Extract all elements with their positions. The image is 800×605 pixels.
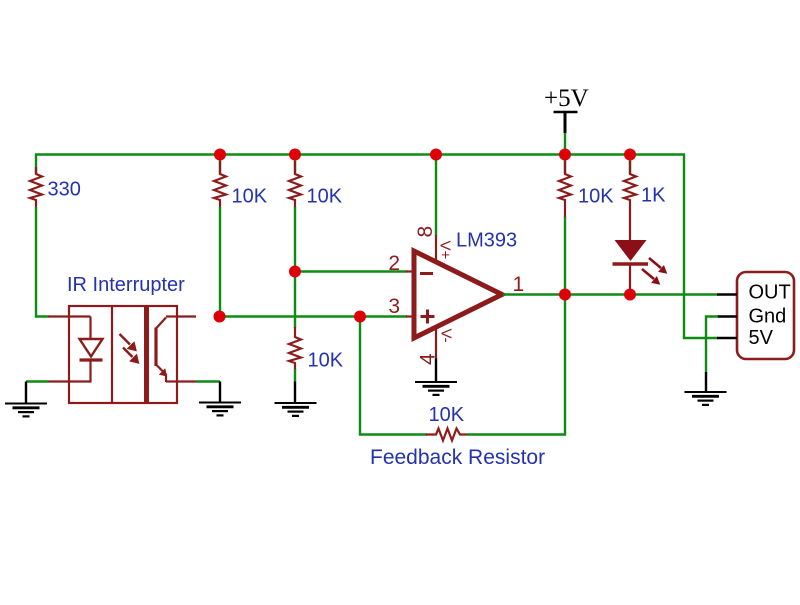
op-amp plus input mark xyxy=(421,310,435,324)
junction: pin3/R2 xyxy=(214,311,226,323)
wire: feedback resistor up to output net xyxy=(467,295,565,435)
resistor R2 10K xyxy=(214,161,226,208)
wire: pin 4 to ground G4 xyxy=(435,327,437,382)
ground G1 xyxy=(5,404,47,417)
wire: R4 to ground xyxy=(294,369,296,382)
wire: pin3 net from IR junction to op-amp xyxy=(219,315,407,317)
junction: rail/pin8 xyxy=(430,149,442,161)
svg-text:Gnd: Gnd xyxy=(749,306,787,328)
resistor R1 330 xyxy=(30,167,42,208)
svg-text:10K: 10K xyxy=(308,350,344,372)
junction: output/LED xyxy=(624,289,636,301)
junction: pin2 net xyxy=(289,266,301,278)
svg-text:5V: 5V xyxy=(749,327,774,349)
resistor R4 10K xyxy=(289,327,301,370)
resistor R3 10K xyxy=(289,161,301,208)
svg-text:V+: V+ xyxy=(437,241,454,260)
svg-text:OUT: OUT xyxy=(749,282,791,304)
svg-text:LM393: LM393 xyxy=(456,230,517,252)
svg-text:2: 2 xyxy=(388,252,400,275)
wire: feedback loop from pin3 junction down xyxy=(360,317,427,435)
wire: rail to R3 xyxy=(294,155,296,175)
junction: output/R5/feedback xyxy=(559,289,571,301)
resistor R7 10K feedback xyxy=(426,429,468,441)
IR interrupter module box xyxy=(69,306,177,403)
resistor R5 10K pull-up xyxy=(559,161,571,218)
wire: rail to pin 8 xyxy=(435,155,437,264)
wire: +5V symbol to rail xyxy=(564,133,566,155)
pin stub 5V xyxy=(717,337,737,340)
junction: rail/R5/+5V xyxy=(559,149,571,161)
wire: rail to R6 xyxy=(629,155,631,175)
wire: R2 down to pin3 net xyxy=(219,207,221,317)
ground under R4 xyxy=(275,403,317,416)
wire: IR cathode to ground G1 xyxy=(26,382,49,404)
ground G4 xyxy=(415,382,457,395)
junction: rail/R2 xyxy=(214,149,226,161)
junction: pin3/feedback xyxy=(354,311,366,323)
wire: IR emitter to ground G2 xyxy=(177,382,220,403)
svg-text:1K: 1K xyxy=(641,185,666,207)
phototransistor Q1 inside module xyxy=(156,317,178,383)
svg-text:IR Interrupter: IR Interrupter xyxy=(67,274,185,296)
pin stub Gnd xyxy=(717,315,737,318)
svg-text:1: 1 xyxy=(513,273,525,296)
ground G2 xyxy=(199,403,241,416)
svg-text:10K: 10K xyxy=(307,186,343,208)
wire: rail to R5 xyxy=(564,155,566,175)
wire: Gnd pin to ground G5 xyxy=(706,317,718,392)
LED light emission arrows xyxy=(642,258,667,285)
svg-text:330: 330 xyxy=(48,179,81,201)
svg-text:10K: 10K xyxy=(578,186,614,208)
LED D2 xyxy=(613,240,649,295)
svg-text:8: 8 xyxy=(414,226,437,238)
ground G5 xyxy=(685,392,727,405)
wire: rail to R2 xyxy=(219,155,221,175)
wire: op-amp output pin 1 net xyxy=(503,293,717,295)
wire: R3 down to junction and on to R4 xyxy=(294,207,296,328)
wire: R5 down to output net xyxy=(564,217,566,295)
connector J1 box xyxy=(737,272,794,359)
wire: rail down-left to R1 xyxy=(35,154,37,175)
resistor R6 1K xyxy=(624,161,636,240)
wire: rail right edge down to 5V pin of J1 xyxy=(684,154,718,339)
power symbol +5V xyxy=(544,85,589,133)
junction: rail/R3 xyxy=(289,149,301,161)
light arrows inside module xyxy=(120,334,140,364)
pin stub OUT xyxy=(717,293,737,296)
svg-text:V-: V- xyxy=(438,329,455,343)
svg-text:10K: 10K xyxy=(429,404,465,426)
wire: pin2 net from R3 junction to op-amp xyxy=(295,270,407,272)
svg-text:10K: 10K xyxy=(232,186,268,208)
svg-text:Feedback Resistor: Feedback Resistor xyxy=(370,446,545,469)
svg-text:3: 3 xyxy=(388,295,400,318)
op-amp U1 LM393 triangle xyxy=(414,251,502,338)
svg-text:+5V: +5V xyxy=(544,85,589,112)
op-amp minus input mark xyxy=(420,272,433,275)
wire: lead into IR box xyxy=(48,315,70,317)
IR LED diode D1 inside module xyxy=(48,317,103,383)
wire: +5V top rail xyxy=(35,153,685,155)
junction: rail/R6 xyxy=(624,149,636,161)
wire: R1 to IR interrupter anode xyxy=(36,207,49,317)
wire: IR collector out to pin3 junction xyxy=(177,315,196,317)
